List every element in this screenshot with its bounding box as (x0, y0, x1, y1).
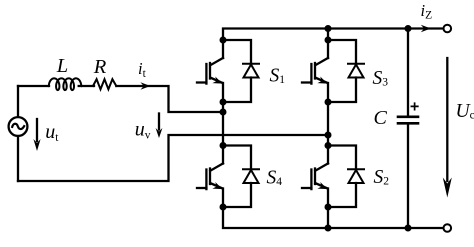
diode D2 branch (328, 146, 356, 208)
svg-text:uv: uv (135, 119, 151, 142)
arrow head it (140, 82, 150, 90)
terminal top right (444, 25, 452, 33)
igbt S3 (302, 58, 328, 84)
inductor L (48, 78, 81, 90)
diode D2 (348, 169, 364, 183)
diode D3 branch (328, 40, 356, 102)
node rail bottom S2 (325, 225, 332, 232)
ac source sine (12, 124, 24, 129)
wire R to bridge input with it arrow (116, 86, 221, 112)
node S4 top (220, 142, 227, 149)
node rail S3 (325, 25, 332, 32)
igbt S4 (197, 164, 223, 190)
svg-text:iZ: iZ (421, 1, 433, 22)
diode D3 (348, 64, 364, 78)
igbt S1 emitter wire (222, 83, 224, 102)
node S1 top (220, 37, 227, 44)
igbt S3 emitter wire (327, 83, 329, 102)
diode D4 branch (223, 146, 251, 208)
igbt S1 collector wire (222, 40, 224, 58)
top rail (223, 29, 443, 41)
svg-text:S1: S1 (270, 66, 286, 87)
igbt S1 (197, 58, 223, 84)
node S1 emitter (220, 99, 227, 106)
svg-text:S4: S4 (267, 168, 283, 189)
svg-text:S3: S3 (373, 68, 389, 89)
node S2 top (325, 142, 332, 149)
ac source V1 (9, 117, 28, 136)
wire source top lead (17, 86, 19, 116)
igbt S2 emitter wire (327, 189, 329, 208)
capacitor C bottom wire (407, 125, 409, 229)
svg-text:ut: ut (45, 121, 59, 144)
arrow Uc (446, 58, 448, 181)
diode D4 (243, 169, 259, 183)
resistor R (93, 79, 116, 89)
terminal bottom right (444, 224, 452, 232)
diode D1 (243, 64, 259, 78)
node rail capacitor top (405, 25, 412, 32)
svg-text:L: L (56, 55, 68, 77)
wire top left horizontal (18, 85, 49, 87)
arrow uv (158, 114, 160, 130)
node S3 top (325, 37, 332, 44)
svg-text:C: C (374, 107, 388, 129)
wire left leg middle (222, 102, 224, 146)
plus sign (411, 103, 417, 109)
wire right leg top (327, 29, 329, 59)
node rail capacitor bottom (405, 225, 412, 232)
node S3 emitter (325, 99, 332, 106)
node S2 emitter (325, 204, 332, 211)
wire bottom loop (18, 135, 326, 181)
capacitor C top wire (407, 29, 409, 116)
igbt S4 collector wire (222, 146, 224, 164)
wire source bottom lead (17, 137, 19, 181)
igbt S4 emitter wire (222, 189, 224, 208)
arrow head iZ (421, 25, 431, 33)
svg-text:Uc: Uc (456, 101, 474, 122)
svg-text:S2: S2 (374, 167, 390, 188)
node phase a (220, 109, 227, 116)
node phase b (325, 132, 332, 139)
svg-text:R: R (93, 56, 107, 78)
svg-text:it: it (138, 59, 147, 80)
diode D1 branch (223, 40, 251, 102)
bottom rail (223, 207, 443, 228)
wire right leg bottom (327, 207, 329, 228)
wire right leg middle (327, 102, 329, 146)
node S4 emitter (220, 204, 227, 211)
igbt S2 (302, 164, 328, 190)
wire between L and R (79, 85, 94, 87)
capacitor C plates (398, 117, 418, 124)
igbt S2 collector wire (327, 146, 329, 164)
arrow ut (36, 119, 38, 141)
